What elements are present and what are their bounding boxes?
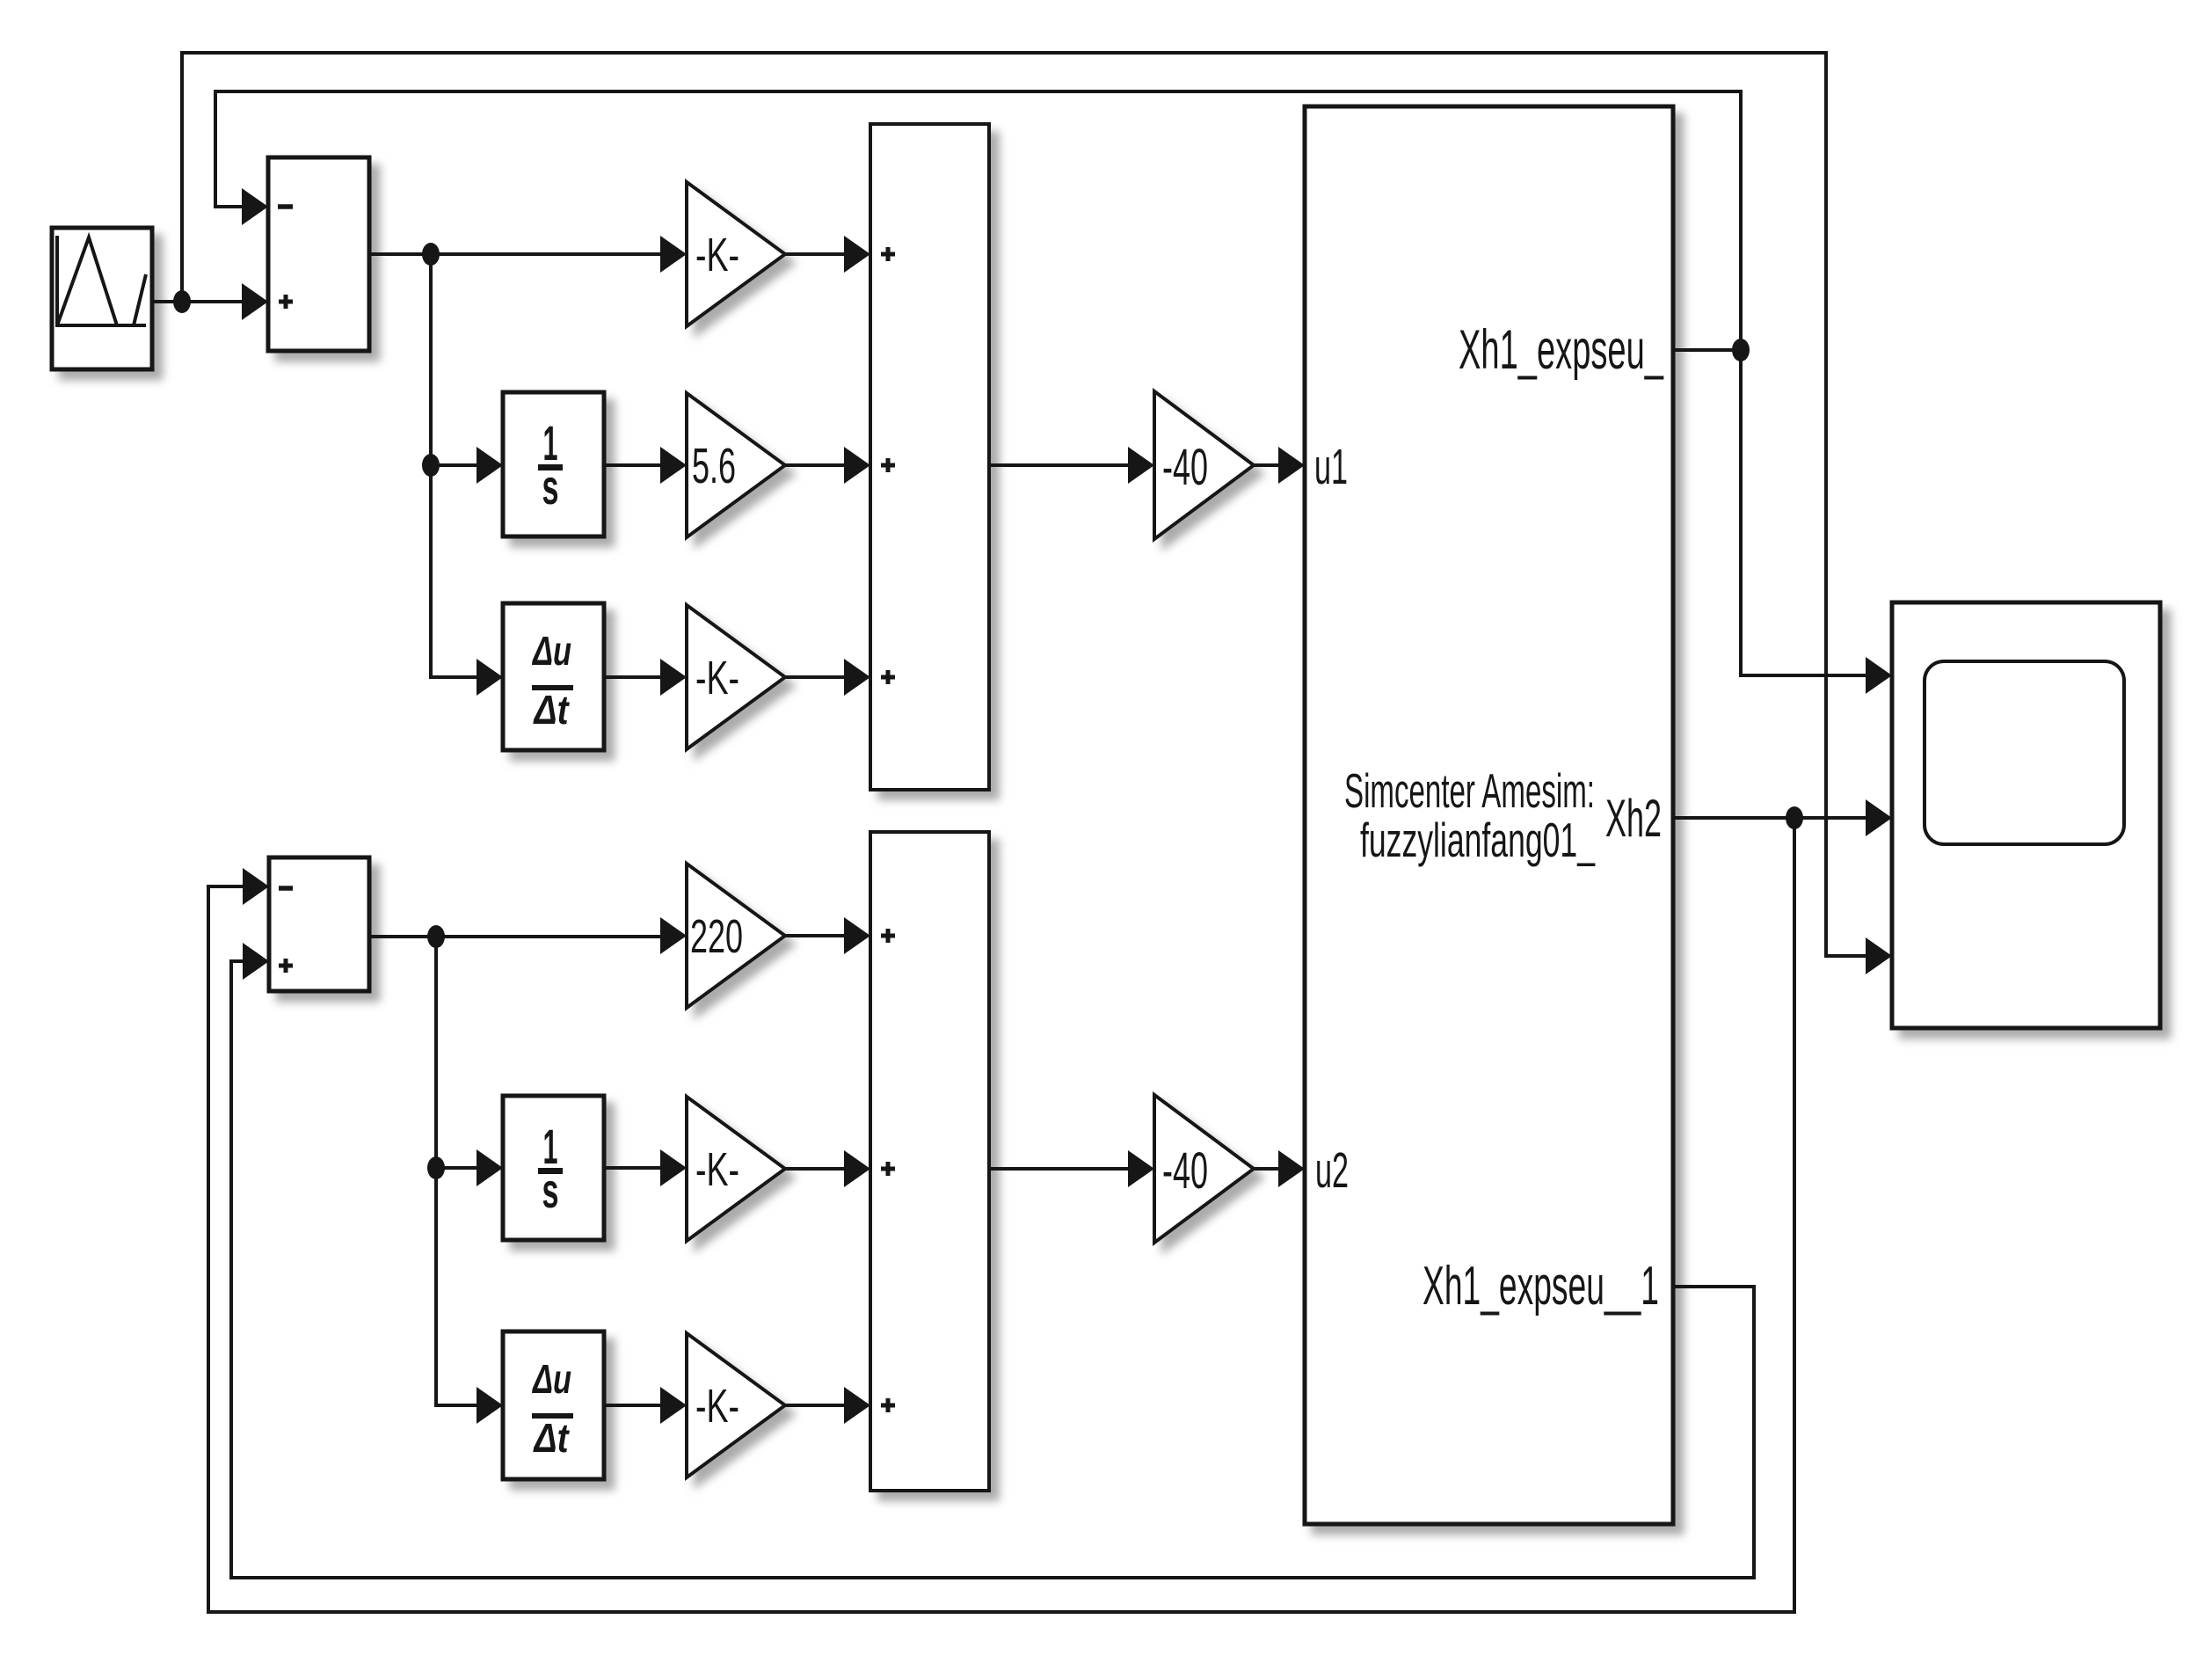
- wire: Du/Dt output to -K- gain row3: [604, 659, 687, 696]
- wire: junction down to 1/s bottom: [436, 937, 503, 1186]
- wire: junction down to Du/Dt row3: [431, 465, 503, 696]
- gain block 220 (bottom row 1): [687, 864, 785, 1008]
- svg-text:Δu: Δu: [532, 628, 571, 674]
- node: bottom row2 junction: [427, 1156, 445, 1179]
- wire: Xh1_expseu_ feedback to Sum1 - input: [215, 91, 1741, 350]
- svg-text:-40: -40: [1162, 1142, 1208, 1200]
- svg-text:Xh1_expseu_: Xh1_expseu_: [1459, 319, 1664, 381]
- wire: Xh2 feedback loop to Sum2 - input: [208, 818, 1794, 1612]
- node: source output junction: [173, 290, 191, 313]
- gain block -40 (top): [1154, 391, 1254, 539]
- wire: junction down to 1/s row2: [431, 254, 503, 484]
- svg-text:-K-: -K-: [695, 1380, 739, 1433]
- svg-text:fuzzylianfang01_: fuzzylianfang01_: [1360, 813, 1596, 867]
- wire: 5.6 output to Add1: [785, 447, 870, 484]
- svg-text:Δu: Δu: [532, 1356, 571, 1402]
- svg-text:Δt: Δt: [533, 687, 570, 733]
- wire: -K- row3 output to Add1: [785, 659, 870, 696]
- node: Sum1 output junction row1: [422, 243, 440, 266]
- wire: source feedforward top loop to scope input 3: [182, 53, 1892, 974]
- wire: -40 bottom output to u2 port: [1254, 1150, 1305, 1187]
- svg-text:-K-: -K-: [695, 1143, 739, 1196]
- svg-text:5.6: 5.6: [692, 438, 736, 494]
- integrator block 1/s (bottom): [503, 1096, 604, 1240]
- wire: Xh2 output to scope input 2: [1673, 799, 1892, 836]
- wire: Xh1_expseu__1 feedback loop to Sum2 + input: [231, 943, 1754, 1578]
- wire: -K- bottom row3 output to Add2: [785, 1387, 870, 1424]
- wire: 1/s bottom output to -K-: [604, 1149, 687, 1186]
- node: Sum2 output junction: [427, 925, 445, 948]
- derivative block Du/Dt (bottom): [503, 1331, 604, 1479]
- svg-text:Xh2: Xh2: [1605, 789, 1662, 848]
- tall sum block Add1 (top): [870, 124, 989, 790]
- node: Xh1_expseu_ junction: [1732, 339, 1750, 361]
- wire: -K- row1 output to Add1: [785, 236, 870, 273]
- wire: -K- bottom row2 output to Add2: [785, 1150, 870, 1187]
- integrator block 1/s (top): [503, 392, 604, 536]
- svg-text:s: s: [542, 459, 559, 514]
- wire: -40 output to u1 port: [1254, 447, 1305, 484]
- wire: 1/s output to 5.6 gain: [604, 447, 687, 484]
- svg-text:Xh1_expseu__1: Xh1_expseu__1: [1423, 1256, 1659, 1317]
- wire: Add2 output to -40 bottom: [989, 1150, 1154, 1187]
- svg-text:u1: u1: [1314, 439, 1348, 495]
- svg-text:-K-: -K-: [695, 652, 739, 704]
- wire: Sum1 output to -K- row1: [369, 236, 687, 273]
- node: Xh2 junction: [1786, 806, 1803, 829]
- subsystem block Simcenter Amesim fuzzylianfang01: [1305, 106, 1673, 1524]
- gain block -40 (bottom): [1154, 1095, 1254, 1243]
- svg-text:220: 220: [690, 910, 743, 963]
- sum block Sum2 (bottom): [269, 857, 369, 991]
- wire: Sum2 output to 220 gain: [369, 917, 687, 954]
- signal source block (Signal Builder icon): [52, 228, 152, 369]
- wire: source output to Sum1 + input: [152, 283, 268, 320]
- wire: junction down to Du/Dt bottom: [436, 1168, 503, 1424]
- node: row2 junction (top): [422, 454, 440, 477]
- svg-text:u2: u2: [1315, 1142, 1349, 1199]
- svg-text:-40: -40: [1162, 439, 1208, 496]
- gain block -K- (bottom row 3): [687, 1333, 785, 1477]
- svg-text:s: s: [542, 1163, 559, 1218]
- gain block -K- (top row 1): [687, 182, 785, 326]
- svg-text:Simcenter Amesim:: Simcenter Amesim:: [1344, 763, 1595, 818]
- gain block 5.6 (top row 2): [687, 393, 785, 537]
- scope block: [1892, 602, 2160, 1028]
- tall sum block Add2 (bottom): [870, 832, 989, 1491]
- wire: 220 output to Add2: [785, 917, 870, 954]
- gain block -K- (bottom row 2): [687, 1097, 785, 1241]
- sum block Sum1: [268, 157, 369, 351]
- svg-text:-K-: -K-: [695, 229, 739, 281]
- wire: Xh1_expseu_ port to junction and scope input 1: [1673, 350, 1892, 694]
- wire: Add1 output to -40 gain: [989, 447, 1154, 484]
- wire: Du/Dt bottom output to -K-: [604, 1387, 687, 1424]
- derivative block Du/Dt (top): [503, 603, 604, 750]
- svg-text:Δt: Δt: [533, 1415, 570, 1461]
- gain block -K- (top row 3): [687, 605, 785, 749]
